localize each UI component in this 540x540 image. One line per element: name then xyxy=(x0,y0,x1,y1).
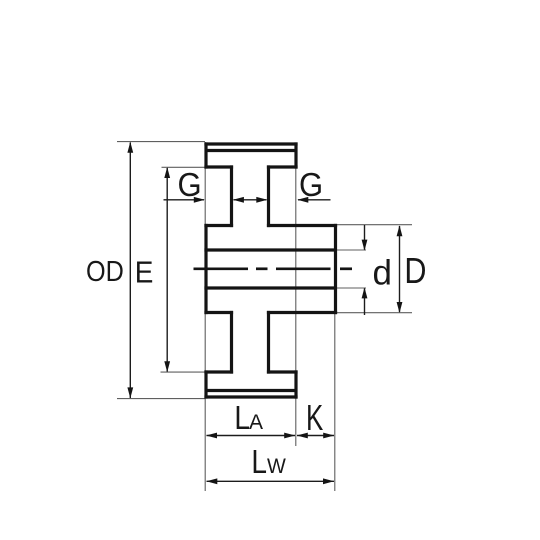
svg-text:d: d xyxy=(373,254,392,293)
svg-text:L: L xyxy=(234,400,250,437)
svg-text:OD: OD xyxy=(86,254,124,287)
svg-text:W: W xyxy=(267,455,286,479)
svg-text:G: G xyxy=(299,166,323,203)
svg-text:K: K xyxy=(306,398,323,438)
svg-text:E: E xyxy=(135,255,154,290)
svg-text:D: D xyxy=(404,252,426,292)
svg-text:L: L xyxy=(251,444,267,481)
svg-text:A: A xyxy=(249,411,263,434)
svg-text:G: G xyxy=(178,166,202,203)
